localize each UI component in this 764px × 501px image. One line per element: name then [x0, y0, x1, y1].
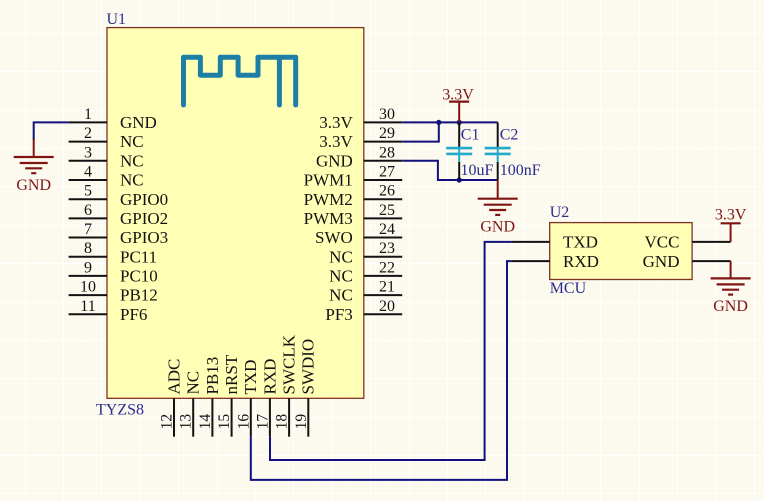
U1 pin 4 NC [69, 164, 144, 190]
junction on bottom rail at C1 [457, 177, 462, 182]
svg-text:10uF: 10uF [461, 162, 494, 179]
svg-text:NC: NC [329, 267, 353, 286]
U1 pin 7 GPIO3 [69, 221, 169, 247]
svg-text:NC: NC [120, 151, 144, 170]
U2 pin GND [643, 252, 731, 271]
U2 pin TXD [511, 233, 598, 252]
wire 3.3V rail from pin30 [402, 121, 498, 123]
svg-text:13: 13 [178, 414, 195, 430]
svg-text:NC: NC [329, 247, 353, 266]
svg-text:27: 27 [379, 164, 395, 181]
svg-text:NC: NC [184, 371, 203, 395]
U1 pin 25 PWM3 [304, 202, 403, 228]
U1 pin 10 PB12 [69, 279, 158, 305]
svg-text:NC: NC [120, 132, 144, 151]
IC U1 TYZS8 module body [107, 28, 364, 399]
antenna meander graphic on U1 [184, 57, 296, 105]
svg-text:NC: NC [329, 286, 353, 305]
junction on 3.3V rail at C1 [457, 120, 462, 125]
svg-text:C2: C2 [500, 127, 519, 144]
svg-text:25: 25 [379, 202, 395, 219]
svg-text:10: 10 [80, 279, 96, 296]
U1 pin 24 SWO [315, 221, 402, 247]
U1 pin 16 TXD [235, 360, 260, 437]
svg-text:3.3V: 3.3V [319, 132, 353, 151]
junction on 3.3V rail at pin29 riser [436, 120, 441, 125]
U1 pin 28 GND [316, 144, 402, 170]
svg-text:11: 11 [80, 298, 95, 315]
svg-text:NC: NC [120, 171, 144, 190]
antenna meander stub [277, 57, 282, 105]
svg-text:GPIO0: GPIO0 [120, 190, 168, 209]
svg-text:3: 3 [84, 144, 92, 161]
svg-text:15: 15 [216, 414, 233, 430]
svg-text:nRST: nRST [222, 354, 241, 394]
svg-text:GND: GND [120, 113, 157, 132]
power port 3.3V (capacitors) [442, 86, 474, 122]
svg-text:TYZS8: TYZS8 [96, 402, 144, 419]
ground symbol GND (U2) [711, 261, 751, 315]
svg-text:TXD: TXD [563, 233, 598, 252]
U1 pin 6 GPIO2 [69, 202, 169, 228]
svg-text:U2: U2 [550, 204, 570, 221]
svg-text:PF3: PF3 [325, 305, 352, 324]
U1 pin 3 NC [69, 144, 144, 170]
svg-text:3.3V: 3.3V [442, 86, 474, 103]
U2 pin VCC [645, 233, 731, 252]
U1 pin 15 nRST [216, 354, 241, 436]
U2 pin RXD [511, 252, 599, 271]
wire pin1 GND to ground [34, 122, 69, 140]
svg-text:RXD: RXD [563, 252, 599, 271]
svg-text:12: 12 [159, 414, 176, 430]
svg-text:29: 29 [379, 125, 395, 142]
svg-text:PF6: PF6 [120, 305, 147, 324]
svg-text:20: 20 [379, 298, 395, 315]
ground symbol GND (left, pin1) [14, 139, 54, 194]
svg-text:ADC: ADC [164, 359, 183, 395]
U1 pin 1 GND [69, 106, 157, 132]
U1 pin 18 SWCLK [274, 334, 299, 436]
svg-text:17: 17 [254, 414, 271, 430]
svg-text:3.3V: 3.3V [715, 206, 747, 223]
svg-text:19: 19 [293, 414, 310, 430]
svg-text:26: 26 [379, 183, 395, 200]
U1 pin 14 PB13 [197, 357, 222, 437]
svg-text:GND: GND [480, 219, 515, 236]
svg-text:16: 16 [235, 414, 252, 430]
wire pin29 to 3.3V rail [402, 122, 439, 141]
U1 pin 29 3.3V [319, 125, 402, 151]
svg-text:22: 22 [379, 259, 395, 276]
svg-text:4: 4 [84, 164, 92, 181]
svg-text:5: 5 [84, 183, 92, 200]
svg-text:GPIO3: GPIO3 [120, 228, 168, 247]
svg-text:PWM2: PWM2 [304, 190, 353, 209]
U1 pin 8 PC11 [69, 240, 158, 266]
svg-text:PC10: PC10 [120, 267, 158, 286]
svg-text:28: 28 [379, 144, 395, 161]
svg-text:U1: U1 [107, 11, 127, 28]
U1 pin 30 3.3V [319, 106, 402, 132]
svg-text:VCC: VCC [645, 233, 680, 252]
capacitor C2 [485, 122, 511, 180]
capacitor C1 [446, 122, 472, 180]
svg-text:SWCLK: SWCLK [280, 334, 299, 394]
svg-text:3.3V: 3.3V [319, 113, 353, 132]
svg-text:24: 24 [379, 221, 395, 238]
svg-text:23: 23 [379, 240, 395, 257]
IC U2 MCU body [550, 223, 692, 280]
svg-text:PWM3: PWM3 [304, 209, 353, 228]
svg-text:GND: GND [316, 151, 353, 170]
svg-text:2: 2 [84, 125, 92, 142]
svg-text:GND: GND [16, 177, 51, 194]
U1 pin 20 PF3 [325, 298, 402, 324]
svg-text:SWO: SWO [315, 228, 353, 247]
svg-text:GND: GND [713, 298, 748, 315]
svg-text:100nF: 100nF [500, 162, 541, 179]
U1 pin 22 NC [329, 259, 402, 285]
U1 pin 9 PC10 [69, 259, 158, 285]
wire U1 TXD (pin16) to U2 RXD [251, 261, 512, 480]
U1 pin 21 NC [329, 279, 402, 305]
svg-text:SWDIO: SWDIO [299, 339, 318, 395]
svg-text:30: 30 [379, 106, 395, 123]
svg-text:21: 21 [379, 279, 395, 296]
svg-text:7: 7 [84, 221, 92, 238]
svg-text:MCU: MCU [550, 280, 587, 297]
svg-text:18: 18 [274, 414, 291, 430]
wire pin28 GND to capacitor bottom rail [402, 161, 498, 180]
U1 pin 11 PF6 [69, 298, 148, 324]
svg-text:GND: GND [643, 252, 680, 271]
svg-text:GPIO2: GPIO2 [120, 209, 168, 228]
U1 pin 2 NC [69, 125, 144, 151]
svg-text:C1: C1 [461, 127, 480, 144]
U1 pin 13 NC [178, 371, 203, 437]
power port 3.3V (U2 VCC) [715, 206, 747, 242]
ground symbol GND (capacitors) [478, 180, 518, 236]
U1 pin 12 ADC [159, 359, 184, 437]
svg-text:RXD: RXD [260, 359, 279, 395]
U1 pin 5 GPIO0 [69, 183, 169, 209]
U1 pin 26 PWM2 [304, 183, 403, 209]
U1 pin 17 RXD [254, 359, 279, 437]
U1 pin 27 PWM1 [304, 164, 403, 190]
svg-text:9: 9 [84, 259, 92, 276]
svg-text:PWM1: PWM1 [304, 171, 353, 190]
svg-text:1: 1 [84, 106, 92, 123]
svg-text:6: 6 [84, 202, 92, 219]
svg-text:8: 8 [84, 240, 92, 257]
svg-text:14: 14 [197, 414, 214, 430]
svg-text:PC11: PC11 [120, 247, 157, 266]
svg-text:PB13: PB13 [203, 357, 222, 395]
wire U1 RXD (pin17) to U2 TXD [270, 242, 511, 460]
U1 pin 19 SWDIO [293, 339, 318, 437]
U1 pin 23 NC [329, 240, 402, 266]
svg-text:TXD: TXD [241, 360, 260, 395]
svg-text:PB12: PB12 [120, 286, 158, 305]
